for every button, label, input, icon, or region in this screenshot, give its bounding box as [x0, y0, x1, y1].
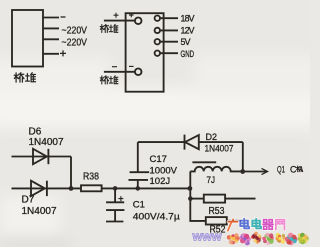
svg-text:D2: D2: [206, 132, 218, 142]
svg-text:GND: GND: [181, 49, 195, 59]
svg-text:R38: R38: [83, 172, 99, 183]
svg-text:400V/4.7µ: 400V/4.7µ: [133, 212, 181, 223]
svg-text:www: www: [192, 230, 222, 244]
svg-text:C: C: [290, 165, 297, 175]
svg-text:D6: D6: [29, 126, 42, 137]
svg-text:1N4007: 1N4007: [22, 206, 57, 217]
svg-text:5V: 5V: [181, 37, 191, 47]
svg-text:1000V: 1000V: [150, 165, 178, 176]
svg-text:18V: 18V: [181, 14, 195, 24]
svg-text:C17: C17: [150, 154, 167, 165]
svg-text:7J: 7J: [207, 175, 216, 186]
svg-text:1N4007: 1N4007: [205, 144, 234, 154]
svg-text:1N4007: 1N4007: [29, 137, 64, 148]
svg-text:102J: 102J: [150, 176, 171, 187]
svg-text:R53: R53: [209, 206, 225, 217]
svg-text:D7: D7: [22, 194, 35, 205]
svg-text:~220V: ~220V: [62, 36, 88, 48]
svg-text:Q1: Q1: [277, 165, 285, 175]
svg-text:C1: C1: [133, 199, 145, 210]
svg-text:~220V: ~220V: [62, 24, 88, 36]
svg-text:fa: fa: [299, 236, 307, 246]
svg-text:12V: 12V: [181, 26, 195, 36]
